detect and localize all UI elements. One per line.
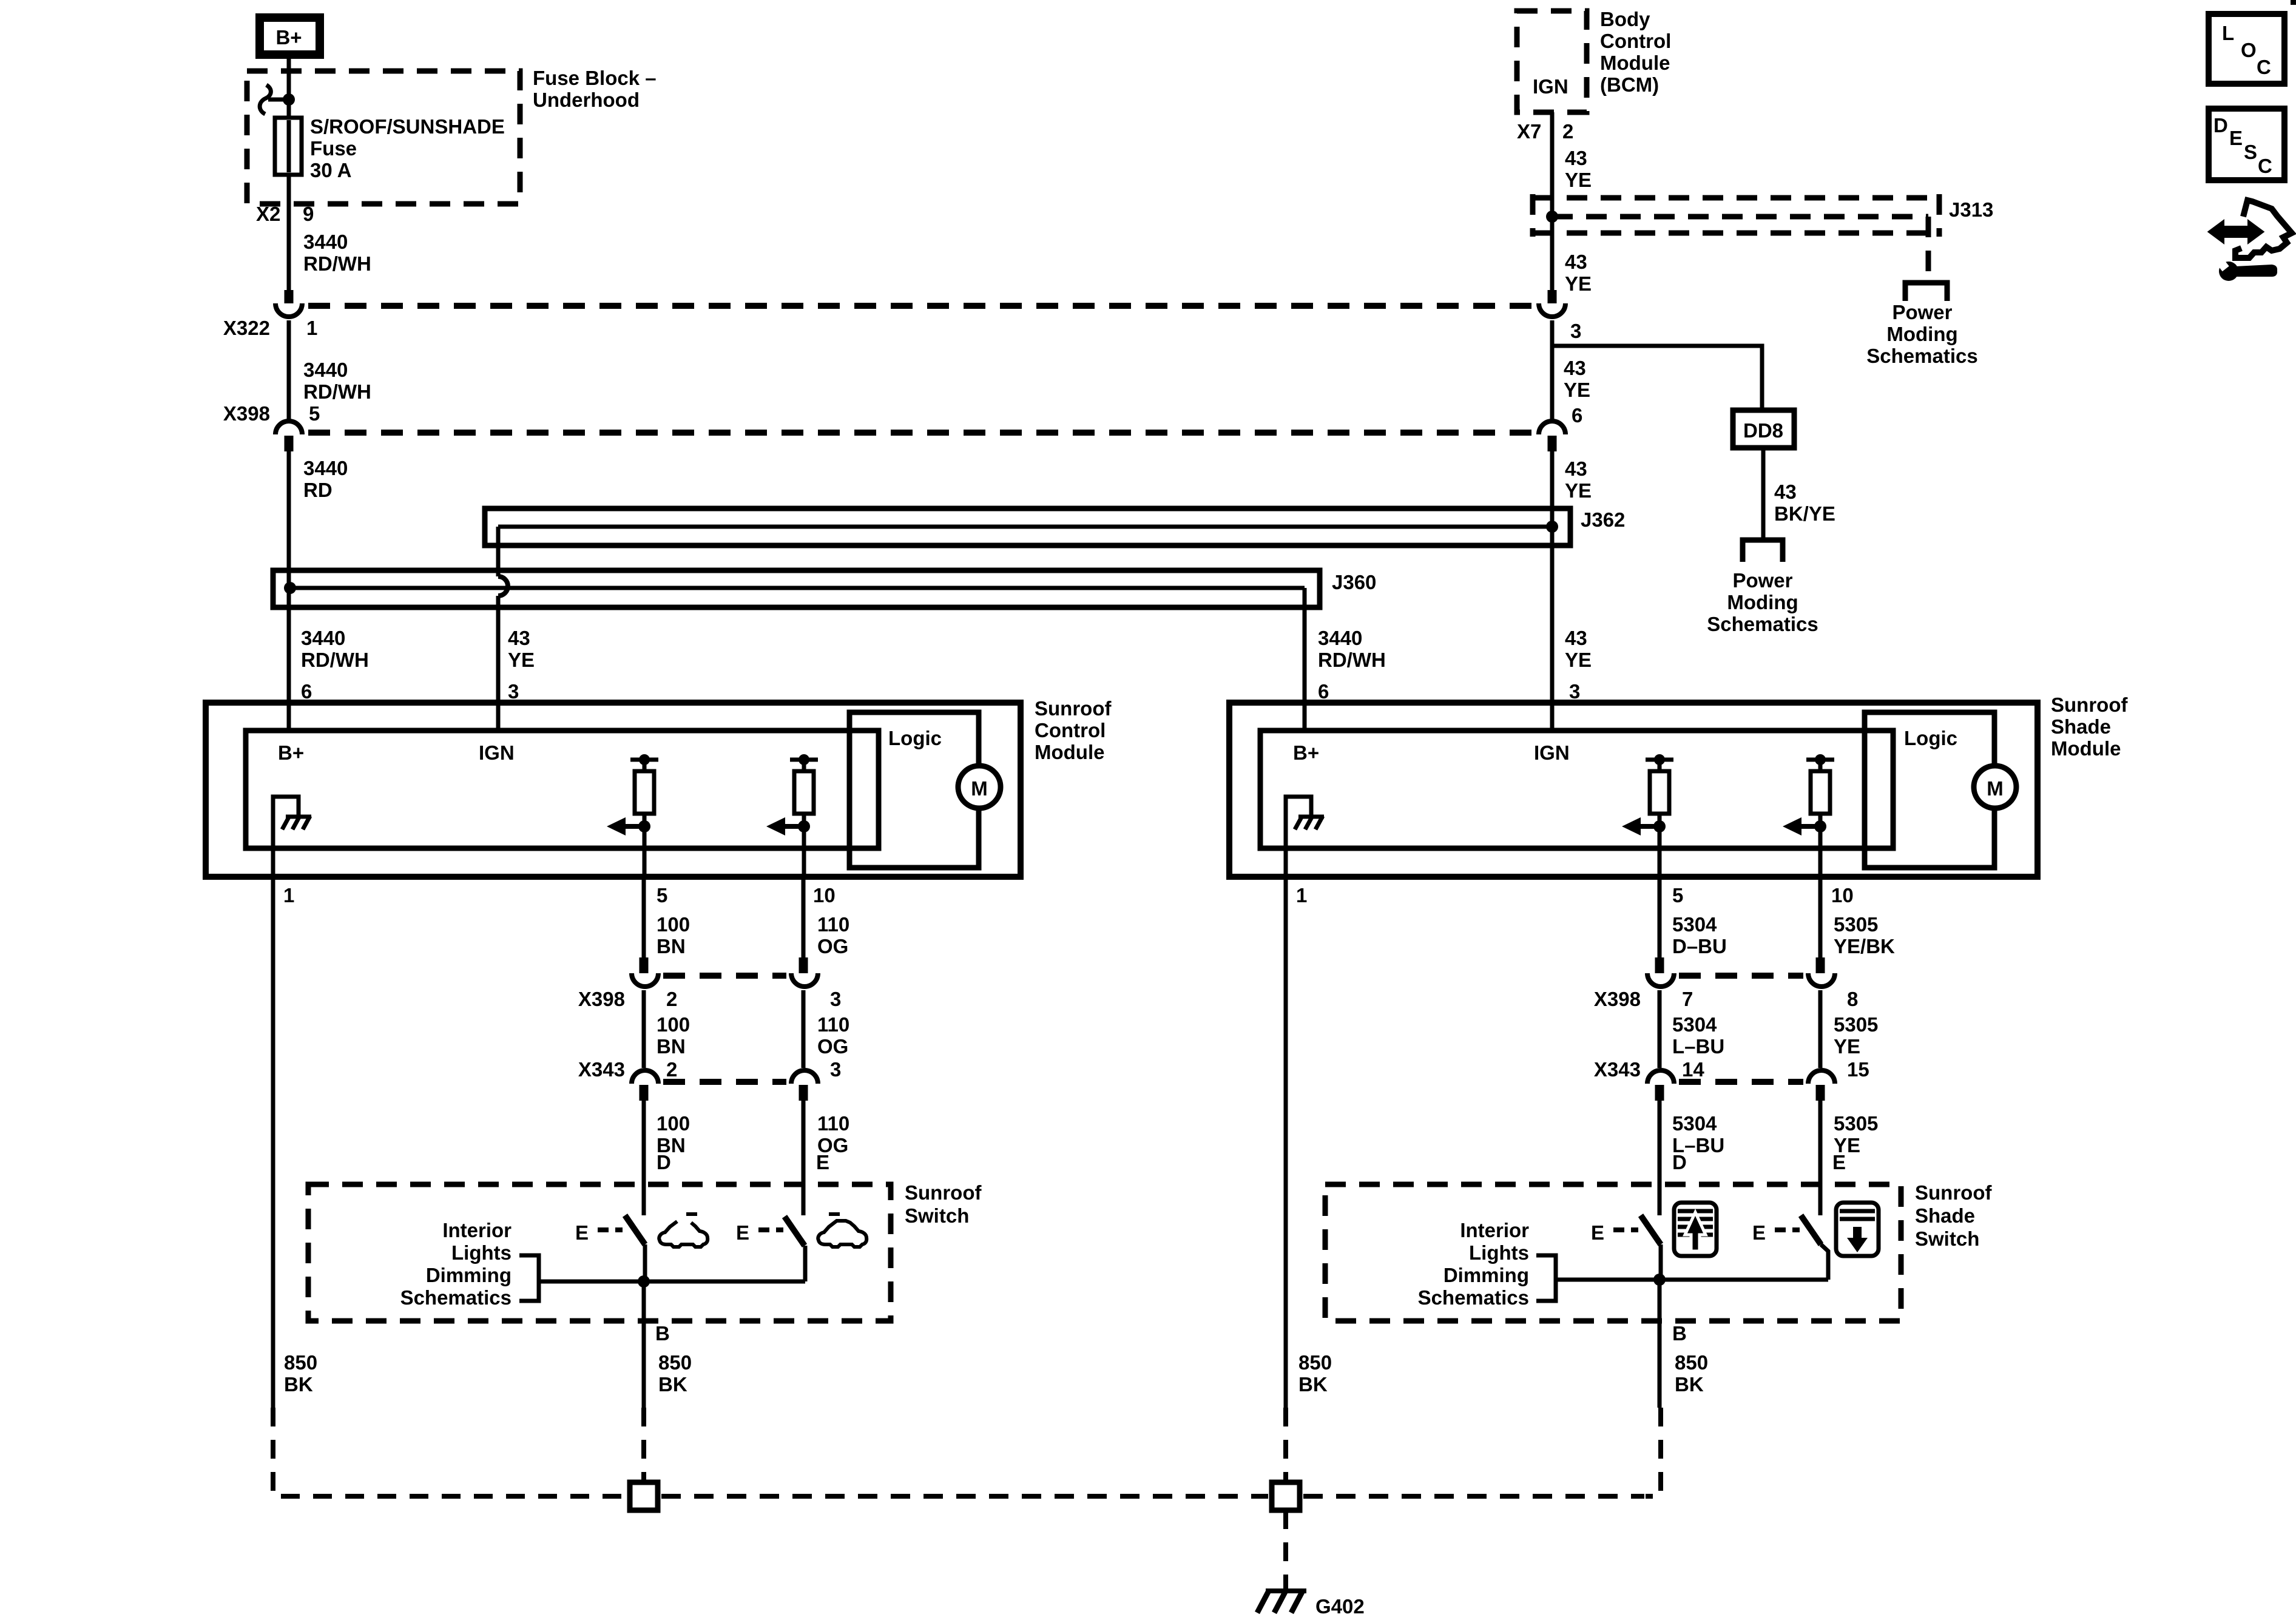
sunroof control module inner box [246, 731, 879, 848]
connector X398 pin 3 [791, 957, 818, 987]
svg-text:Switch: Switch [905, 1204, 969, 1227]
svg-text:30 A: 30 A [310, 159, 351, 181]
driver element pin10 (left module) [766, 754, 818, 878]
wire 3440 RD/WH from J360 to right module B+ [1303, 588, 1307, 731]
internal ground path (right module) [1286, 797, 1324, 878]
junction J362 (solid box) [485, 508, 1570, 545]
svg-text:3: 3 [508, 680, 519, 703]
svg-text:Interior: Interior [1460, 1219, 1529, 1241]
dashed drop right pin1 [1283, 1408, 1288, 1480]
svg-text:3440: 3440 [301, 627, 345, 649]
motor M (right module) [1974, 766, 2016, 808]
svg-text:Power: Power [1892, 301, 1952, 323]
svg-text:B+: B+ [1293, 741, 1319, 764]
svg-text:Lights: Lights [451, 1241, 512, 1264]
svg-text:15: 15 [1847, 1058, 1869, 1081]
svg-text:2: 2 [666, 988, 677, 1010]
switch open blade 2 (left) [736, 1217, 805, 1281]
branch wire to DD8 [1552, 346, 1762, 413]
svg-text:2: 2 [666, 1058, 677, 1081]
svg-text:D: D [657, 1151, 671, 1173]
dashed B drop right with corner [1646, 1408, 1661, 1496]
sunroof shade module outer box [1229, 703, 2038, 877]
wire right module pin1 down [1284, 878, 1288, 1408]
internal ground path (left module) [273, 797, 311, 878]
svg-text:BN: BN [657, 1035, 686, 1058]
left wire pin10 to X398 [802, 878, 806, 957]
svg-text:O: O [2241, 39, 2257, 61]
connector X343 pin 2 [632, 1070, 658, 1101]
svg-text:IGN: IGN [479, 741, 515, 764]
svg-text:110: 110 [817, 1112, 849, 1135]
sunroof open icon [659, 1214, 707, 1247]
switch open blade 2 (right) [1752, 1215, 1828, 1280]
svg-text:14: 14 [1682, 1058, 1704, 1081]
svg-text:Moding: Moding [1886, 323, 1957, 345]
sunroof control module outer box [206, 703, 1021, 877]
dashed connector line X343 (bottom right) [1679, 1079, 1803, 1085]
svg-text:E: E [1591, 1221, 1604, 1244]
svg-text:YE: YE [1565, 479, 1592, 502]
svg-text:B: B [655, 1322, 670, 1345]
svg-text:E: E [575, 1221, 589, 1244]
svg-text:100: 100 [657, 1112, 690, 1135]
svg-text:43: 43 [1565, 147, 1587, 169]
svg-text:3440: 3440 [303, 359, 348, 381]
svg-text:S: S [2244, 141, 2257, 163]
svg-text:YE/BK: YE/BK [1834, 935, 1895, 957]
driver element pin5 (left module) [607, 754, 658, 878]
svg-text:Schematics: Schematics [1866, 345, 1977, 367]
junction J360 (solid box) [273, 570, 1320, 607]
splice S right [1272, 1482, 1300, 1510]
wire 43 YE from J362 to left module IGN with hop over J360 [498, 527, 508, 731]
svg-text:Interior: Interior [442, 1219, 512, 1241]
dashed drop to G402 [1283, 1510, 1288, 1591]
svg-text:YE: YE [1565, 272, 1592, 295]
wires down to sunroof switch [642, 1098, 646, 1215]
svg-text:6: 6 [1572, 404, 1582, 427]
wire 43 YE down to J362 [1550, 449, 1555, 731]
wires between X398 and X343 [642, 990, 646, 1068]
svg-text:J362: J362 [1581, 508, 1625, 531]
svg-text:D: D [2213, 114, 2228, 137]
wires between X398 and X343 (right) [1658, 990, 1662, 1068]
svg-text:IGN: IGN [1533, 75, 1568, 98]
svg-text:43: 43 [1564, 357, 1586, 379]
svg-text:L: L [2222, 22, 2234, 44]
dashed connector line X398 (bottom left) [663, 973, 786, 979]
svg-text:10: 10 [813, 884, 836, 906]
ground G402 [1257, 1590, 1306, 1613]
svg-text:7: 7 [1682, 988, 1693, 1010]
svg-text:L–BU: L–BU [1672, 1035, 1724, 1058]
svg-text:5304: 5304 [1672, 1013, 1717, 1036]
switch open blade (right) [1591, 1215, 1661, 1280]
common line with junction (left switch) [539, 1275, 805, 1408]
svg-text:9: 9 [303, 203, 314, 225]
connector X343 pin 14 [1647, 1070, 1674, 1101]
svg-text:Shade: Shade [2051, 715, 2111, 738]
connector X398 pin 5 [223, 402, 1536, 451]
svg-text:1: 1 [283, 884, 294, 906]
svg-text:X322: X322 [223, 317, 270, 339]
svg-text:BK/YE: BK/YE [1774, 502, 1835, 525]
svg-text:3440: 3440 [303, 231, 348, 253]
svg-text:Lights: Lights [1469, 1241, 1529, 1264]
svg-text:Body: Body [1600, 8, 1650, 30]
svg-text:1: 1 [306, 317, 317, 339]
svg-text:Dimming: Dimming [426, 1264, 512, 1286]
svg-text:3: 3 [830, 988, 841, 1010]
svg-text:Underhood: Underhood [533, 89, 640, 111]
svg-text:OG: OG [817, 935, 848, 957]
wire B+ to fuse [287, 58, 291, 120]
svg-text:100: 100 [657, 1013, 690, 1036]
shade down icon [1836, 1203, 1879, 1256]
svg-text:Sunroof: Sunroof [1915, 1181, 1992, 1204]
svg-text:J313: J313 [1949, 198, 1993, 221]
node B+ (battery feed) [260, 18, 320, 55]
dashed connector line X343 (bottom left) [663, 1079, 786, 1085]
logic box (left module) [849, 712, 979, 868]
svg-text:RD/WH: RD/WH [1318, 649, 1386, 671]
sunroof shade module inner box [1260, 731, 1893, 848]
svg-text:3: 3 [1570, 320, 1581, 342]
svg-text:G402: G402 [1315, 1595, 1365, 1617]
svg-text:Module: Module [1035, 741, 1104, 763]
wires down to shade switch [1658, 1098, 1662, 1215]
connector X398 pin 7 [1647, 957, 1674, 987]
bracket interior lights (left) [519, 1255, 539, 1301]
sunroof shade switch box (dashed) [1325, 1184, 1901, 1321]
svg-text:B+: B+ [275, 26, 302, 49]
logic box (right module) [1865, 712, 1994, 868]
svg-text:6: 6 [301, 680, 312, 703]
svg-text:YE: YE [1564, 379, 1590, 401]
svg-text:M: M [1987, 777, 2004, 800]
right wire pin10 to X398 [1818, 878, 1823, 957]
svg-text:3440: 3440 [303, 457, 348, 479]
wire 43 YE from BCM [1550, 112, 1555, 291]
svg-text:Schematics: Schematics [1707, 613, 1818, 635]
svg-text:E: E [2229, 127, 2243, 149]
svg-text:OG: OG [817, 1035, 848, 1058]
driver element pin10 (right module) [1783, 754, 1834, 878]
svg-text:8: 8 [1847, 988, 1858, 1010]
corner mark [2291, 0, 2296, 5]
svg-text:110: 110 [817, 1013, 849, 1036]
svg-text:5304: 5304 [1672, 913, 1717, 936]
svg-text:RD/WH: RD/WH [303, 252, 371, 275]
svg-text:YE: YE [508, 649, 535, 671]
sunroof closed icon [818, 1214, 866, 1247]
connector X398 pin 8 [1808, 957, 1835, 987]
svg-text:B: B [1672, 1322, 1687, 1345]
svg-text:X343: X343 [578, 1058, 625, 1081]
fuse S/ROOF/SUNSHADE 30A [275, 100, 302, 291]
svg-text:Logic: Logic [888, 727, 942, 749]
svg-text:BK: BK [284, 1373, 313, 1396]
wire down from pin 3 [1550, 320, 1555, 420]
svg-text:850: 850 [1298, 1351, 1332, 1374]
svg-text:Power: Power [1732, 569, 1792, 592]
bus bar clip terminal [260, 85, 295, 114]
svg-text:X398: X398 [1594, 988, 1641, 1010]
svg-text:Fuse Block –: Fuse Block – [533, 67, 657, 89]
svg-text:X2: X2 [256, 203, 280, 225]
svg-text:E: E [1752, 1221, 1766, 1244]
svg-text:M: M [971, 777, 988, 800]
svg-text:YE: YE [1834, 1035, 1860, 1058]
left wire pin5 to X398 [642, 878, 646, 957]
common line with junction (right switch) [1556, 1274, 1828, 1408]
svg-text:J360: J360 [1332, 571, 1376, 593]
svg-text:100: 100 [657, 913, 690, 936]
svg-text:RD/WH: RD/WH [301, 649, 369, 671]
svg-text:3440: 3440 [1318, 627, 1362, 649]
connector X322 pin 1 [223, 290, 1536, 339]
svg-text:1: 1 [1296, 884, 1307, 906]
svg-text:5: 5 [657, 884, 667, 906]
svg-text:Moding: Moding [1727, 591, 1798, 613]
svg-text:850: 850 [658, 1351, 692, 1374]
svg-text:43: 43 [1774, 481, 1797, 503]
fuse block underhood box [247, 71, 520, 204]
svg-text:BK: BK [1675, 1373, 1704, 1396]
connector X322 pin 3 (right) [1539, 290, 1581, 342]
schematic navigation icon (arrow and outline) [2209, 200, 2292, 258]
connector X398 pin 6 (right) [1539, 404, 1582, 451]
splice S left [630, 1482, 658, 1510]
svg-text:Fuse: Fuse [310, 137, 357, 160]
dashed connector line X398 (bottom right) [1679, 973, 1803, 979]
svg-text:YE: YE [1565, 169, 1592, 191]
svg-text:850: 850 [284, 1351, 317, 1374]
wire 3440 RD/WH to X398 [287, 320, 291, 420]
dashed ground wire left pin1 [273, 1408, 626, 1496]
svg-text:Dimming: Dimming [1443, 1264, 1529, 1286]
svg-text:43: 43 [1565, 251, 1587, 273]
right wire pin5 to X398 [1658, 878, 1662, 957]
svg-text:110: 110 [817, 913, 849, 936]
svg-text:5: 5 [1672, 884, 1683, 906]
svg-text:43: 43 [1565, 627, 1587, 649]
splice pack DD8 [1733, 410, 1794, 448]
connector X343 pin 3 [791, 1070, 818, 1101]
driver element pin5 (right module) [1622, 754, 1673, 878]
svg-text:Control: Control [1035, 719, 1106, 741]
shade up icon [1674, 1203, 1717, 1256]
svg-text:5305: 5305 [1834, 913, 1878, 936]
off-page bracket below DD8 [1743, 540, 1783, 562]
svg-text:IGN: IGN [1534, 741, 1570, 764]
svg-text:5: 5 [309, 402, 320, 425]
svg-text:X7: X7 [1517, 120, 1541, 143]
ground bus dashed [661, 1494, 1268, 1499]
svg-text:Sunroof: Sunroof [2051, 694, 2128, 716]
ground bus dashed (right section) [1303, 1494, 1644, 1499]
svg-text:B+: B+ [278, 741, 304, 764]
svg-text:RD/WH: RD/WH [303, 380, 371, 403]
svg-text:Module: Module [2051, 737, 2121, 760]
bracket interior lights (right) [1536, 1255, 1556, 1301]
wrench icon [2215, 256, 2277, 281]
DESC reference box [2209, 109, 2284, 180]
svg-text:3: 3 [1569, 680, 1580, 703]
svg-text:Sunroof: Sunroof [905, 1181, 982, 1204]
svg-text:Shade: Shade [1915, 1204, 1975, 1227]
svg-text:E: E [736, 1221, 749, 1244]
svg-text:Schematics: Schematics [400, 1286, 512, 1309]
BCM box (dashed) [1517, 11, 1587, 112]
svg-text:5305: 5305 [1834, 1013, 1878, 1036]
wire left pin1 solid part was drawn; dashed B drop left [641, 1408, 646, 1480]
svg-text:D–BU: D–BU [1672, 935, 1727, 957]
svg-text:E: E [1832, 1151, 1846, 1173]
switch open blade (left) [575, 1215, 645, 1281]
svg-text:BN: BN [657, 935, 686, 957]
wire left module pin1 down [271, 878, 275, 1408]
svg-text:X398: X398 [578, 988, 625, 1010]
svg-text:X398: X398 [223, 402, 270, 425]
svg-text:43: 43 [1565, 457, 1587, 480]
svg-text:D: D [1672, 1151, 1687, 1173]
connector X398 pin 2 [632, 957, 658, 987]
svg-text:(BCM): (BCM) [1600, 73, 1659, 96]
motor M (left module) [958, 766, 1001, 808]
svg-text:Module: Module [1600, 52, 1670, 74]
sunroof switch box (dashed) [308, 1184, 891, 1321]
svg-text:43: 43 [508, 627, 530, 649]
svg-text:10: 10 [1831, 884, 1854, 906]
svg-text:C: C [2257, 56, 2271, 78]
wire 3440 RD down to J360 and module [287, 449, 291, 731]
svg-text:Sunroof: Sunroof [1035, 697, 1112, 720]
svg-text:Schematics: Schematics [1418, 1286, 1529, 1309]
LOC reference box [2209, 14, 2284, 84]
svg-text:Logic: Logic [1904, 727, 1957, 749]
svg-text:BK: BK [658, 1373, 687, 1396]
junction J313 (dashed box) [1533, 194, 1939, 278]
svg-text:C: C [2258, 155, 2272, 177]
svg-text:850: 850 [1675, 1351, 1708, 1374]
svg-text:X343: X343 [1594, 1058, 1641, 1081]
svg-text:5304: 5304 [1672, 1112, 1717, 1135]
svg-text:6: 6 [1318, 680, 1329, 703]
svg-text:E: E [816, 1151, 829, 1173]
connector X343 pin 15 [1808, 1070, 1835, 1101]
svg-text:YE: YE [1565, 649, 1592, 671]
off-page bracket to power moding [1905, 283, 1947, 301]
svg-text:3: 3 [830, 1058, 841, 1081]
svg-text:DD8: DD8 [1743, 419, 1783, 442]
svg-text:Switch: Switch [1915, 1227, 1979, 1250]
svg-text:5305: 5305 [1834, 1112, 1878, 1135]
svg-text:S/ROOF/SUNSHADE: S/ROOF/SUNSHADE [310, 115, 505, 138]
svg-text:2: 2 [1562, 120, 1573, 143]
svg-text:Control: Control [1600, 30, 1671, 52]
svg-text:RD: RD [303, 479, 333, 501]
wire 43 BK/YE below DD8 [1761, 448, 1766, 540]
svg-text:BK: BK [1298, 1373, 1328, 1396]
